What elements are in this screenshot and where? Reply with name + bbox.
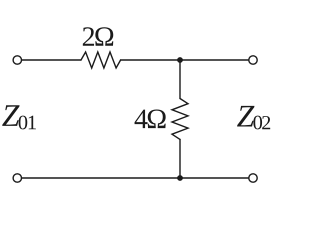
value label 4Ω for R2 [135, 110, 148, 128]
resistor R2 4Ω shunt zigzag [172, 99, 188, 140]
wire top rail left segment [22, 59, 81, 61]
terminal port 2 top-right open circle [249, 56, 257, 64]
node junction dot bottom at R2 bottom [177, 175, 183, 181]
wire shunt branch upper [179, 60, 181, 98]
node junction dot top at R2 top [177, 57, 183, 63]
port impedance label Z02 [237, 106, 254, 127]
port impedance label Z01 [2, 105, 19, 126]
terminal port 1 top-left open circle [13, 56, 21, 64]
terminal port 1 bottom-left open circle [13, 174, 21, 182]
wire bottom rail [22, 177, 249, 179]
resistor R1 2Ω series zigzag [81, 52, 121, 68]
value label 2Ω for R1 [83, 27, 94, 46]
wire shunt branch lower [179, 139, 181, 178]
terminal port 2 bottom-right open circle [249, 174, 257, 182]
wire top rail right segment [121, 59, 249, 61]
